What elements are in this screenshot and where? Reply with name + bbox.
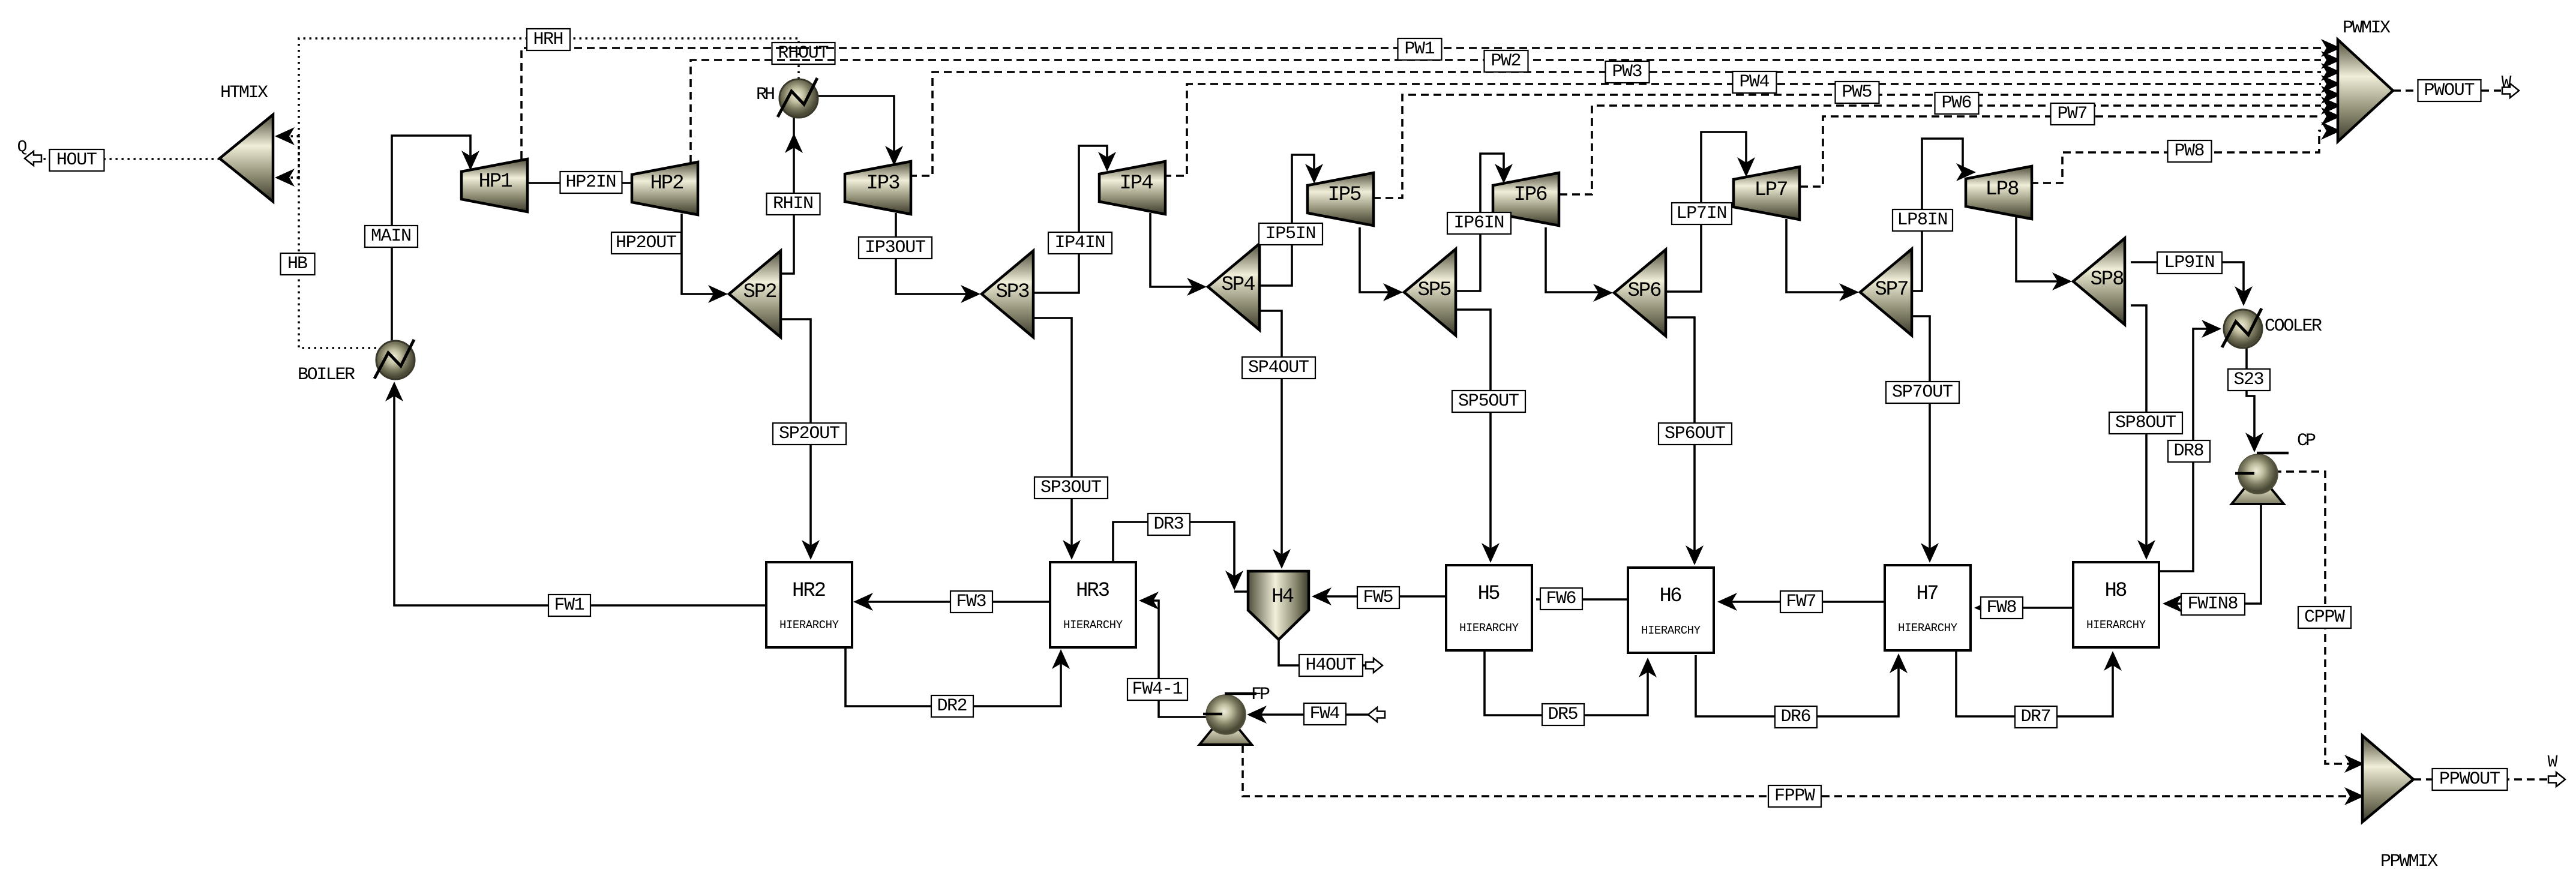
stream label HOUT	[50, 149, 104, 171]
stream label SP4OUT	[1242, 357, 1315, 379]
stream label PW6	[1935, 92, 1979, 114]
arrowhead into IP3	[885, 146, 903, 166]
svg-text:PW6: PW6	[1942, 93, 1972, 113]
svg-text:HIERARCHY: HIERARCHY	[1459, 622, 1519, 635]
svg-text:SP2: SP2	[743, 281, 778, 304]
stream label HRH	[527, 29, 570, 50]
wire stream FW3 HR3 to HR2	[858, 601, 1050, 603]
arrowhead LP8IN into LP8	[1956, 163, 1976, 181]
splitter SP2	[729, 251, 781, 337]
wire stream S23 COOLER to CP	[2247, 348, 2254, 448]
svg-text:FWIN8: FWIN8	[2188, 594, 2239, 614]
wire work stream PW7 LP7 to PWMIX	[1800, 116, 2321, 187]
wire stream IP6 outlet to SP6	[1546, 227, 1608, 292]
stream label HP2IN	[560, 172, 622, 193]
hierarchy block H5	[1446, 565, 1532, 650]
stream label DR3	[1148, 514, 1190, 535]
svg-text:HIERARCHY: HIERARCHY	[1898, 622, 1958, 635]
arrowhead into SP4	[1187, 278, 1207, 296]
svg-text:SP4OUT: SP4OUT	[1248, 358, 1309, 378]
outline arrow FW4 source	[1368, 707, 1385, 722]
svg-text:SP7: SP7	[1875, 278, 1909, 301]
svg-text:PW7: PW7	[2058, 104, 2088, 124]
splitter SP4	[1208, 244, 1259, 330]
wire stream SP2OUT SP2 to HR2	[779, 319, 811, 555]
svg-text:PWOUT: PWOUT	[2424, 80, 2475, 101]
svg-text:PW3: PW3	[1612, 62, 1643, 82]
turbine HP1	[461, 159, 527, 212]
svg-text:PPWMIX: PPWMIX	[2380, 851, 2438, 872]
arrowhead PW8 into PWMIX	[2321, 122, 2341, 140]
wire stream FWIN8 CP to H8	[2167, 504, 2261, 604]
arrowhead FW8 into H7	[1974, 599, 1994, 617]
arrowhead into SP5	[1383, 283, 1403, 301]
wire stream LP8 outlet to SP8	[2016, 217, 2067, 281]
wire stream H4OUT H4 to outlet	[1279, 640, 1366, 665]
arrowhead FW5 into H4	[1312, 587, 1332, 605]
arrowhead PW5 into PWMIX	[2321, 86, 2341, 104]
arrowhead SP3OUT into HR3	[1063, 540, 1081, 560]
stream label MAIN	[365, 226, 418, 247]
stream label DR7	[2015, 706, 2057, 728]
splitter SP8	[2073, 238, 2125, 325]
wire stream DR3 HR3 to H4	[1113, 522, 1248, 592]
svg-text:PW2: PW2	[1491, 51, 1522, 71]
wire stream LP7IN SP6 to LP7	[1666, 132, 1746, 292]
arrowhead SP4OUT into H4	[1273, 549, 1291, 569]
mixer PWMIX	[2338, 40, 2393, 142]
svg-text:LP8IN: LP8IN	[1897, 210, 1948, 230]
svg-text:SP7OUT: SP7OUT	[1892, 382, 1953, 403]
svg-text:SP3OUT: SP3OUT	[1040, 478, 1102, 498]
svg-text:RH: RH	[756, 85, 775, 105]
svg-text:FW4-1: FW4-1	[1132, 679, 1183, 700]
svg-text:CP: CP	[2297, 431, 2316, 451]
arrowhead FW3 into HR2	[853, 593, 873, 611]
arrowhead SP7OUT into H7	[1921, 543, 1939, 563]
svg-text:DR7: DR7	[2021, 707, 2052, 727]
svg-text:SP6OUT: SP6OUT	[1665, 424, 1726, 444]
wire stream LP7 outlet to SP7	[1786, 219, 1854, 292]
arrowhead IP3OUT into SP3	[961, 285, 980, 303]
svg-text:FW4: FW4	[1310, 704, 1341, 724]
svg-text:HP2OUT: HP2OUT	[616, 233, 677, 253]
wire stream FW8 H8 to H7	[1979, 607, 2073, 609]
arrowhead into SP7	[1839, 283, 1859, 301]
pump FP feed pump	[1199, 694, 1256, 745]
wire stream IP5IN SP4 to IP5	[1259, 155, 1314, 286]
wire stream MAIN vertical+horizontal boiler to HP1	[392, 136, 470, 341]
turbine IP4	[1099, 161, 1165, 214]
svg-text:HIERARCHY: HIERARCHY	[779, 619, 839, 632]
wire stream LP8IN SP7 to LP8	[1912, 139, 1963, 291]
svg-text:H4OUT: H4OUT	[1306, 655, 1357, 676]
arrowhead PW7 into PWMIX	[2321, 107, 2341, 125]
svg-text:HP2: HP2	[650, 172, 685, 195]
flash drum H4	[1248, 571, 1309, 640]
wire stream FW6 H6 to H5	[1536, 598, 1628, 601]
stream label FW4	[1304, 703, 1346, 725]
wire stream IP6IN SP5 to IP6	[1456, 154, 1504, 291]
svg-text:W: W	[2548, 754, 2558, 772]
svg-text:HP1: HP1	[479, 170, 513, 193]
arrowhead HRH into HTMIX	[275, 127, 295, 145]
stream label CPPW	[2298, 607, 2351, 628]
arrowhead PW2 into PWMIX	[2321, 51, 2341, 69]
wire stream FW4 feed to FP	[1252, 713, 1369, 716]
stream label PW8	[2168, 140, 2212, 162]
svg-text:MAIN: MAIN	[371, 226, 412, 247]
arrowhead FWIN8 into H8	[2163, 595, 2182, 613]
arrowhead MAIN into HP1	[461, 151, 479, 170]
stream label FW6	[1540, 588, 1582, 610]
hierarchy block H6	[1628, 568, 1714, 653]
svg-text:HOUT: HOUT	[56, 150, 97, 170]
wire work stream PW2 HP2 to PWMIX	[691, 60, 2321, 163]
svg-text:FW1: FW1	[554, 595, 585, 616]
svg-text:W: W	[2502, 74, 2512, 92]
wire stream FW1 HR2 to BOILER	[394, 386, 766, 605]
wire stream SP3OUT SP3 to HR3	[1033, 318, 1072, 555]
wire stream FW4-1 FP to HR3	[1144, 601, 1206, 717]
stream label PWOUT	[2418, 80, 2481, 101]
outline arrow PPWOUT work out	[2548, 772, 2565, 787]
arrowhead FW4-1 into HR3	[1139, 592, 1159, 610]
arrowhead into SP6	[1593, 284, 1613, 302]
svg-text:HIERARCHY: HIERARCHY	[2086, 619, 2146, 632]
stream label SP5OUT	[1452, 391, 1525, 412]
stream label RHOUT (crossed by work streams)	[772, 43, 835, 64]
svg-text:FW6: FW6	[1546, 589, 1577, 609]
svg-text:PW4: PW4	[1740, 72, 1770, 92]
stream label FW5	[1357, 587, 1399, 608]
stream label IP3OUT	[859, 237, 932, 259]
svg-text:H4: H4	[1271, 586, 1294, 608]
arrowhead CPPW into PPWMIX	[2344, 755, 2364, 773]
arrowhead HB into HTMIX	[275, 169, 295, 187]
wire stream IP5 outlet to SP5	[1360, 227, 1398, 292]
arrowhead FW1 into BOILER	[385, 382, 403, 401]
svg-text:COOLER: COOLER	[2265, 316, 2322, 337]
wire work stream FPPW FP to PPWMIX	[1243, 745, 2359, 796]
stream label PW1	[1398, 38, 1442, 60]
svg-text:HB: HB	[287, 254, 308, 274]
svg-text:DR6: DR6	[1781, 707, 1812, 727]
arrowhead DR5 into H6	[1639, 658, 1657, 677]
splitter SP3	[982, 251, 1033, 337]
svg-text:HR3: HR3	[1076, 580, 1110, 602]
turbine IP5	[1308, 173, 1374, 226]
wire work stream PWOUT PWMIX to outlet	[2393, 89, 2501, 92]
svg-text:IP3: IP3	[866, 172, 901, 195]
stream label PW3	[1606, 61, 1650, 83]
svg-text:HIERARCHY: HIERARCHY	[1063, 619, 1123, 632]
arrowhead PW3 into PWMIX	[2321, 63, 2341, 81]
stream label FW7	[1780, 591, 1822, 613]
svg-text:Q: Q	[17, 139, 28, 157]
wire stream HP2OUT HP2 to SP2	[682, 214, 723, 294]
wire stream SP6OUT SP6 to H6	[1666, 317, 1695, 560]
wire heat stream HRH RH to HTMIX	[280, 38, 799, 178]
stream label PW5	[1836, 82, 1879, 103]
wire stream RHIN SP2 to RH	[779, 118, 794, 274]
svg-text:FW3: FW3	[956, 592, 987, 612]
wire stream IP4IN SP3 to IP4	[1033, 146, 1107, 293]
wire stream LP9IN SP8 to COOLER	[2131, 262, 2244, 301]
svg-text:LP8: LP8	[1986, 178, 2020, 201]
svg-text:DR2: DR2	[937, 696, 968, 716]
hierarchy block H8	[2073, 562, 2159, 647]
stream label DR8	[2168, 440, 2210, 462]
wire stream FW5 H5 to H4	[1317, 595, 1446, 598]
stream label PW2	[1485, 50, 1528, 72]
arrowhead IP4IN into IP4	[1098, 152, 1116, 172]
stream label FWIN8	[2181, 593, 2245, 615]
wire work stream PW4 IP4 to PWMIX	[1163, 84, 2321, 176]
turbine LP7	[1734, 167, 1800, 220]
svg-text:FW5: FW5	[1363, 587, 1394, 608]
svg-text:HTMIX: HTMIX	[220, 83, 268, 103]
stream label FPPW	[1768, 785, 1821, 807]
stream label SP3OUT	[1034, 477, 1108, 499]
arrowhead HP2OUT into SP2	[708, 285, 728, 303]
svg-text:LP7: LP7	[1755, 179, 1789, 202]
stream label SP6OUT	[1659, 423, 1732, 445]
wire work stream CPPW CP to PPWMIX	[2274, 472, 2359, 764]
stream label DR5	[1542, 704, 1584, 725]
arrowhead into SP8	[2052, 272, 2072, 290]
arrowhead FW7 into H6	[1717, 593, 1737, 611]
stream label FW4-1	[1127, 679, 1187, 700]
svg-text:LP7IN: LP7IN	[1677, 203, 1728, 224]
wire stream RH outlet to IP3	[818, 96, 894, 161]
stream label SP2OUT	[773, 423, 846, 445]
wire stream DR8 H8 to COOLER	[2160, 329, 2217, 571]
outline arrow HOUT heat out	[25, 151, 41, 166]
svg-text:IP6IN: IP6IN	[1454, 213, 1505, 233]
stream label FW1	[548, 595, 590, 616]
arrowhead SP5OUT into H5	[1482, 543, 1500, 563]
svg-text:SP6: SP6	[1628, 280, 1662, 302]
wire heat stream HOUT HTMIX to outlet	[41, 158, 220, 160]
splitter SP6	[1614, 250, 1666, 336]
arrowhead DR6 into H7	[1890, 653, 1908, 673]
svg-text:IP3OUT: IP3OUT	[865, 238, 926, 258]
svg-text:BOILER: BOILER	[298, 365, 355, 385]
wire stream FW7 H7 to H6	[1722, 601, 1885, 603]
mixer PPWMIX	[2362, 736, 2413, 822]
svg-text:SP4: SP4	[1222, 274, 1256, 296]
svg-text:PWMIX: PWMIX	[2343, 18, 2391, 38]
arrowhead DR7 into H8	[2104, 651, 2122, 671]
wire stream DR2 HR2 to HR3	[845, 647, 1061, 706]
mixer HTMIX	[220, 115, 273, 202]
arrowhead FPPW into PPWMIX	[2344, 787, 2364, 805]
wire stream IP3OUT IP3 to SP3	[896, 213, 976, 294]
stream label FW3	[950, 591, 992, 613]
outline arrow H4OUT product	[1366, 658, 1383, 673]
wire stream SP8OUT SP8 to H8	[2131, 305, 2146, 555]
wire stream DR5 H5 to H6	[1485, 651, 1648, 715]
stream label PPWOUT	[2433, 769, 2508, 790]
stream label IP4IN	[1048, 232, 1112, 254]
svg-text:PPWOUT: PPWOUT	[2439, 769, 2500, 790]
svg-text:FP: FP	[1251, 685, 1270, 705]
svg-text:LP9IN: LP9IN	[2164, 253, 2215, 273]
turbine HP2	[632, 162, 698, 215]
stream label FW8	[1981, 597, 2023, 619]
wire stream DR6 H6 to H7	[1696, 655, 1899, 716]
turbine IP6	[1493, 173, 1559, 226]
svg-text:PW8: PW8	[2175, 141, 2205, 161]
svg-text:SP3: SP3	[996, 281, 1030, 304]
stream label PW7	[2051, 103, 2095, 125]
hierarchy block HR2	[766, 562, 852, 647]
arrowhead PW1 into PWMIX	[2321, 39, 2341, 57]
arrowhead IP6IN into IP6	[1495, 164, 1513, 184]
svg-text:H7: H7	[1917, 583, 1939, 605]
svg-text:FW7: FW7	[1786, 592, 1817, 612]
svg-text:H8: H8	[2105, 580, 2128, 602]
wire work stream PW3 IP3 to PWMIX	[909, 72, 2321, 176]
svg-text:PW5: PW5	[1842, 82, 1873, 103]
arrowhead PW6 into PWMIX	[2321, 97, 2341, 115]
svg-text:DR8: DR8	[2174, 441, 2205, 461]
splitter SP5	[1404, 249, 1456, 335]
wire heat stream HB BOILER to HTMIX	[280, 136, 376, 348]
stream label IP5IN	[1259, 223, 1323, 245]
svg-text:IP4: IP4	[1120, 172, 1154, 195]
turbine LP8	[1966, 166, 2032, 219]
arrowhead DR2 into HR3	[1052, 649, 1070, 669]
arrowhead PW4 into PWMIX	[2321, 75, 2341, 93]
heater RH reheater	[778, 78, 818, 118]
svg-text:IP5IN: IP5IN	[1265, 224, 1317, 244]
wire stream SP7OUT SP7 to H7	[1912, 316, 1930, 558]
stream label RHIN	[767, 193, 820, 215]
stream label LP8IN	[1893, 209, 1953, 231]
stream label LP7IN	[1672, 203, 1732, 224]
svg-text:DR3: DR3	[1154, 514, 1184, 535]
svg-text:FPPW: FPPW	[1774, 786, 1815, 806]
svg-text:SP5: SP5	[1418, 279, 1452, 302]
wire stream SP4OUT SP4 to H4	[1259, 311, 1282, 564]
arrowhead SP6OUT into H6	[1686, 545, 1704, 565]
stream label PW4	[1733, 71, 1777, 93]
arrowhead FW4 into FP	[1247, 706, 1267, 724]
svg-text:S23: S23	[2234, 370, 2265, 390]
stream label H4OUT	[1299, 655, 1363, 676]
svg-text:RHIN: RHIN	[773, 194, 814, 214]
svg-text:IP5: IP5	[1328, 184, 1362, 206]
wire work stream PPWOUT PPWMIX to outlet	[2413, 778, 2547, 781]
arrowhead RHIN into RH	[785, 133, 803, 153]
svg-text:HR2: HR2	[792, 580, 826, 602]
arrowhead LP9IN into COOLER	[2235, 286, 2253, 306]
arrowhead IP5IN into IP5	[1305, 164, 1323, 184]
hierarchy block H7	[1885, 565, 1971, 650]
wire stream HP2IN HP1 to HP2	[528, 182, 632, 184]
stream label HP2OUT	[611, 232, 681, 254]
hierarchy block HR3	[1050, 562, 1136, 647]
stream label LP9IN	[2157, 252, 2222, 274]
splitter SP7	[1860, 249, 1912, 335]
wire stream DR7 H7 to H8	[1956, 651, 2113, 716]
svg-text:SP2OUT: SP2OUT	[779, 424, 840, 444]
stream label DR2	[931, 695, 973, 717]
svg-text:PW1: PW1	[1405, 39, 1435, 59]
svg-text:H5: H5	[1478, 583, 1501, 605]
svg-text:HRH: HRH	[533, 29, 564, 50]
arrowhead DR3 into H4	[1225, 571, 1243, 590]
arrowhead SP8OUT into H8	[2137, 540, 2155, 560]
svg-text:DR5: DR5	[1548, 704, 1579, 725]
stream label IP6IN	[1447, 212, 1511, 234]
svg-text:SP5OUT: SP5OUT	[1458, 391, 1519, 412]
svg-text:CPPW: CPPW	[2304, 607, 2345, 628]
stream label SP7OUT	[1886, 382, 1959, 403]
svg-text:HP2IN: HP2IN	[566, 172, 617, 193]
wire stream IP4 outlet to SP4	[1150, 213, 1202, 287]
stream label DR6	[1775, 706, 1817, 728]
pump CP condensate pump	[2232, 453, 2289, 504]
heater COOLER	[2222, 308, 2262, 348]
svg-text:SP8: SP8	[2091, 268, 2125, 291]
wire stream SP5OUT SP5 to H5	[1456, 310, 1491, 558]
heater BOILER	[374, 340, 415, 379]
arrowhead SP2OUT into HR2	[802, 540, 820, 560]
stream label HB	[281, 253, 315, 275]
wire work stream PW8 LP8 to PWMIX	[2031, 131, 2321, 183]
arrowhead DR8 into COOLER	[2202, 320, 2221, 338]
turbine IP3	[845, 161, 911, 214]
svg-text:HIERARCHY: HIERARCHY	[1641, 624, 1701, 637]
svg-text:IP6: IP6	[1514, 184, 1548, 206]
svg-text:FW8: FW8	[1987, 598, 2017, 618]
arrowhead S23 into CP	[2245, 433, 2263, 452]
wire work stream PW5 IP5 to PWMIX	[1373, 95, 2321, 198]
arrowhead LP7IN into LP7	[1737, 157, 1755, 177]
wire work stream PW6 IP6 to PWMIX	[1560, 106, 2321, 194]
svg-text:SP8OUT: SP8OUT	[2115, 413, 2176, 433]
stream label SP8OUT	[2109, 412, 2182, 434]
svg-text:H6: H6	[1660, 585, 1683, 608]
wire work stream PW1 HP1 to PWMIX	[521, 48, 2321, 159]
svg-text:IP4IN: IP4IN	[1055, 233, 1106, 253]
stream label S23	[2228, 369, 2270, 391]
outline arrow PWOUT work out	[2502, 83, 2519, 98]
